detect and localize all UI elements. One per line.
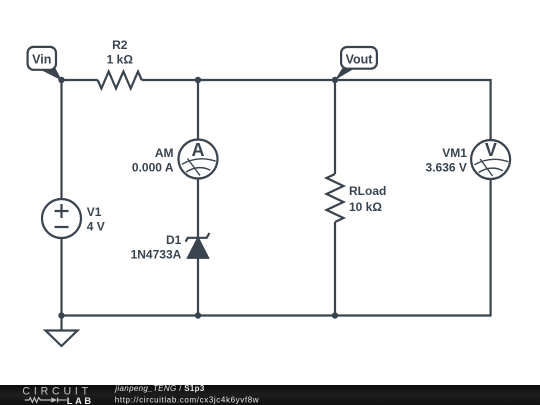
svg-text:10 kΩ: 10 kΩ <box>349 200 382 214</box>
svg-text:1N4733A: 1N4733A <box>131 248 182 262</box>
svg-text:V: V <box>485 140 497 160</box>
node Vin label callout <box>28 47 62 81</box>
node Vout junction dot <box>332 77 338 83</box>
wire: ammeter to D1 <box>197 179 199 237</box>
ground <box>60 316 62 331</box>
junction dot RLoad bottom <box>332 312 338 318</box>
voltmeter VM1 <box>471 140 510 179</box>
CircuitLab logo text <box>22 386 92 398</box>
ground junction dot <box>58 312 64 318</box>
zener diode D1 <box>186 233 210 242</box>
svg-text:AM: AM <box>155 146 174 160</box>
resistor R2 <box>98 72 142 89</box>
svg-text:0.000 A: 0.000 A <box>132 160 174 174</box>
svg-text:R2: R2 <box>112 38 128 52</box>
wire top left: Vin node to R2 <box>62 79 98 81</box>
svg-text:D1: D1 <box>166 233 182 247</box>
wire: VM1 to bottom corner and wire bottom <box>62 180 491 316</box>
svg-text:VM1: VM1 <box>442 146 467 160</box>
voltage source V1 <box>42 199 81 238</box>
wire: top to ammeter <box>197 80 199 139</box>
svg-text:http://circuitlab.com/cx3jc4k6: http://circuitlab.com/cx3jc4k6yvf8w <box>115 395 259 404</box>
node Vout label callout <box>335 47 377 80</box>
node at AM branch top <box>195 77 201 83</box>
svg-text:jianpeng_TENG / S1p3: jianpeng_TENG / S1p3 <box>114 384 205 393</box>
junction dot D1 bottom <box>195 312 201 318</box>
wire: D1 to bottom <box>197 258 199 316</box>
svg-text:Vout: Vout <box>346 52 374 66</box>
svg-text:Vin: Vin <box>32 52 51 66</box>
svg-text:4 V: 4 V <box>87 220 105 234</box>
node Vin junction dot <box>58 77 64 83</box>
ammeter AM <box>179 140 218 179</box>
svg-text:LAB: LAB <box>67 396 94 405</box>
CircuitLab logo zigzag and diode <box>25 398 67 403</box>
svg-text:RLoad: RLoad <box>349 184 386 198</box>
wire top: R2 to right corner <box>142 80 491 140</box>
svg-text:V1: V1 <box>87 205 102 219</box>
wire: RLoad to bottom <box>334 222 336 316</box>
svg-text:A: A <box>192 140 205 160</box>
wire left: Vin node down to V1 <box>60 80 62 199</box>
svg-text:3.636 V: 3.636 V <box>426 160 467 174</box>
wire: Vout node down to RLoad <box>334 80 336 174</box>
svg-text:1 kΩ: 1 kΩ <box>107 52 134 66</box>
footer bar <box>0 385 540 405</box>
resistor RLoad <box>327 174 344 222</box>
wire: V1 to ground junction <box>60 238 62 316</box>
